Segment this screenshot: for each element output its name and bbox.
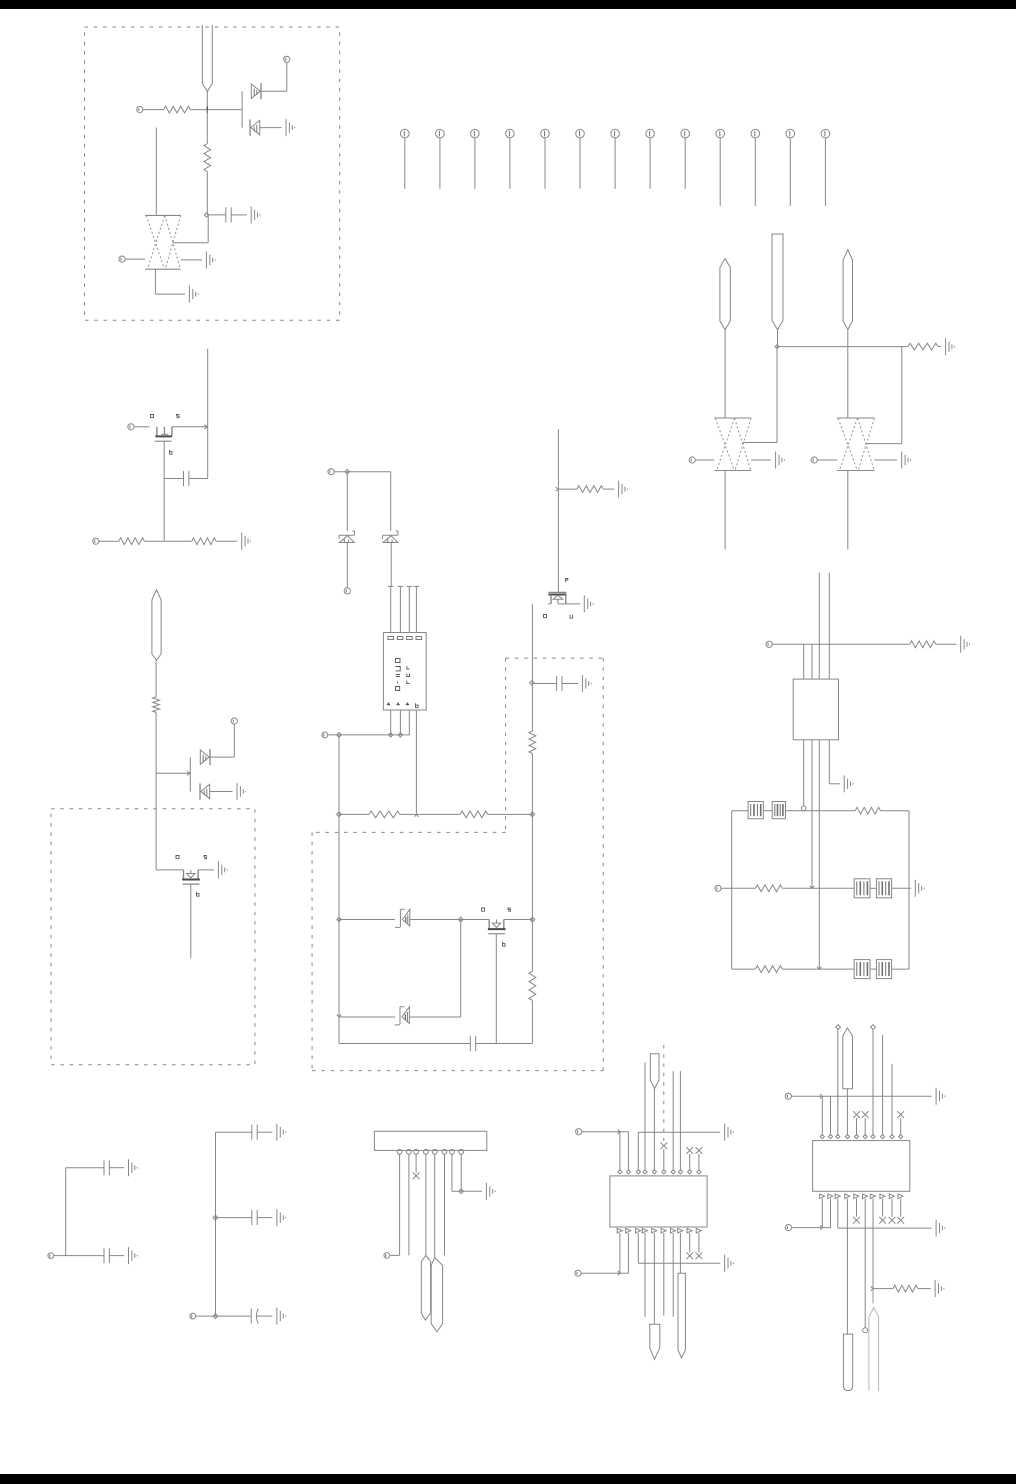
no-connect X: [660, 1142, 667, 1149]
U5 pin 15 mark: [854, 1194, 859, 1199]
resistor R2: [204, 144, 211, 172]
no-connect X: [686, 1252, 693, 1259]
wire: [164, 478, 183, 480]
U5 pin12 wire: [830, 1199, 832, 1228]
label G: [503, 942, 506, 946]
wire: [338, 735, 340, 815]
wire: [534, 683, 557, 685]
wire: [257, 1315, 273, 1317]
wire: [216, 1131, 252, 1133]
wire: [698, 1154, 700, 1171]
wire: [772, 643, 909, 645]
test-point pill TP12: [843, 1334, 852, 1391]
junction arrow: [820, 1094, 822, 1098]
pin P6: [128, 424, 134, 430]
U5 pin13 wire: [837, 1199, 839, 1229]
ground: [237, 783, 246, 800]
wire: [847, 330, 849, 418]
dashed enclosure (central, left/bottom): [312, 658, 603, 1071]
resistor R12: [855, 807, 880, 814]
wire: [581, 1272, 628, 1274]
test-point pill TP3: [772, 234, 783, 330]
wire: [334, 471, 391, 473]
test-point pill TP1: [202, 25, 212, 92]
U4 pin20 wire: [698, 1233, 700, 1252]
node: [530, 917, 535, 922]
junction arrow: [618, 1130, 620, 1134]
U4 pin 9 node: [688, 1170, 692, 1174]
diode D3: [200, 749, 210, 765]
CN1 pin 8 pad: [459, 1149, 464, 1154]
wire: [721, 887, 755, 889]
wire: [782, 887, 854, 889]
node: [398, 733, 402, 737]
connector pin 2: [436, 129, 445, 189]
node: [213, 1215, 218, 1220]
wire: [241, 110, 243, 128]
wire: [206, 92, 208, 110]
wire: [818, 573, 820, 680]
wire: [231, 214, 247, 216]
ground: [242, 533, 251, 550]
wire: [891, 1064, 893, 1136]
connector CN1 body: [374, 1131, 486, 1150]
capacitor C4: [470, 1036, 475, 1051]
wire: [856, 1118, 858, 1136]
U4 pin 3 node: [636, 1170, 640, 1174]
wire: [339, 1043, 470, 1045]
wire: [390, 472, 392, 531]
wire: [866, 347, 902, 444]
wire (diode bus): [189, 757, 191, 791]
top black bar: [0, 0, 1016, 9]
label S: [570, 615, 573, 618]
ground: [286, 119, 295, 136]
U5 pin 1 node: [820, 1135, 824, 1139]
wire: [803, 740, 805, 807]
wire: [410, 919, 461, 921]
CN1 pin 6 pad: [442, 1149, 447, 1154]
no-connect X: [413, 1172, 420, 1179]
wire: [155, 712, 157, 870]
resistor R14: [755, 966, 782, 973]
wire: [109, 1255, 124, 1257]
wire: [190, 109, 242, 111]
wire: [216, 1217, 252, 1219]
pin P17: [576, 1129, 582, 1135]
pin P4: [689, 457, 695, 463]
node: [337, 733, 342, 738]
wire: [786, 810, 856, 812]
ground: [936, 1220, 945, 1237]
U4 pin 14 mark: [642, 1228, 647, 1233]
ground: [582, 675, 591, 692]
ground: [725, 1124, 734, 1141]
U5 pin 6 node: [863, 1135, 867, 1139]
U4 pin 7 node: [671, 1170, 675, 1174]
wire: [189, 478, 208, 480]
test-point pill TP8: [650, 1054, 659, 1089]
label S: [204, 856, 207, 859]
wire: [562, 683, 578, 685]
U5 pin20 wire: [900, 1199, 902, 1217]
connector pin 9: [681, 129, 690, 189]
CN1 pin8 wire: [460, 1154, 462, 1191]
wire: [328, 734, 410, 736]
node: [337, 812, 342, 817]
CN1 pin 5 pad: [432, 1149, 437, 1154]
wire: [603, 488, 614, 490]
IC U4 body: [610, 1176, 707, 1227]
U4 pin 17 mark: [671, 1228, 676, 1233]
wire: [582, 1131, 629, 1133]
U4 pin 8 node: [678, 1170, 682, 1174]
wire: [743, 347, 778, 443]
wire: [339, 1016, 395, 1018]
wire: [900, 1118, 902, 1136]
wire: [695, 459, 714, 461]
wire: [892, 887, 911, 889]
test-point pill TP10: [678, 1273, 685, 1358]
wire: [902, 346, 941, 348]
resistor R1: [164, 106, 191, 113]
resistor R3: [908, 343, 938, 350]
U4 pin 1 node: [618, 1170, 622, 1174]
connector pin 1: [401, 129, 410, 189]
ground: [776, 452, 785, 469]
wire: [198, 869, 214, 871]
U5 pin 10 node: [899, 1135, 903, 1139]
connector pin 13: [821, 129, 830, 206]
U5 pin 13 mark: [835, 1194, 840, 1199]
U4 pin 13 mark: [636, 1228, 641, 1233]
wire: [777, 330, 779, 347]
wire: [817, 459, 837, 461]
resistor R6: [153, 697, 160, 712]
wire: [558, 488, 577, 490]
wire: [566, 603, 580, 605]
dashed stub: [663, 1045, 665, 1141]
wire: [763, 810, 772, 812]
pin P11: [322, 732, 328, 738]
U4 pin 15 mark: [652, 1228, 657, 1233]
CN1 pin4 wire: [425, 1154, 427, 1255]
ground: [844, 775, 853, 792]
junction arrow: [618, 1271, 620, 1276]
junction: [156, 771, 190, 775]
node: [801, 806, 806, 811]
wire: [830, 1096, 832, 1135]
wire: [821, 1096, 823, 1135]
wire (Q1 gate): [163, 441, 165, 541]
wire: [644, 1062, 646, 1171]
U1 pin 2 wire: [398, 586, 404, 632]
U4 pin18 wire: [679, 1233, 681, 1273]
no-connect X: [897, 1111, 904, 1118]
connector pin 11: [751, 129, 760, 206]
ground: [277, 1209, 286, 1226]
wire: [488, 813, 533, 815]
diode D4: [200, 783, 210, 799]
wire: [210, 791, 233, 793]
wire: [838, 1227, 932, 1229]
wire: [792, 1095, 932, 1097]
ground: [936, 1088, 945, 1105]
pin P12: [766, 641, 772, 647]
wire: [339, 919, 395, 921]
CN1 pin3 wire: [415, 1154, 417, 1173]
label S: [177, 415, 180, 418]
wire: [638, 1262, 720, 1264]
capacitor C2: [184, 471, 189, 486]
U5 pin 16 mark: [863, 1194, 868, 1199]
wire (mesh right): [908, 811, 910, 969]
wire: [782, 968, 854, 970]
wire: [653, 1089, 655, 1171]
wire: [338, 814, 340, 1043]
wire (triac X3 MT2): [847, 471, 849, 550]
wire (Q2 gate): [190, 884, 192, 958]
wire: [216, 540, 237, 542]
wire: [619, 1132, 621, 1171]
wire: [936, 643, 956, 645]
wire: [144, 540, 191, 542]
U4 pin16 wire: [663, 1233, 665, 1316]
U1 refdes marks: [396, 659, 410, 691]
U5 pin16 wire: [864, 1199, 866, 1328]
label D: [544, 615, 547, 618]
ferrite bead FB3: [854, 879, 870, 898]
wire: [99, 540, 119, 542]
wire: [206, 172, 208, 215]
test-point pill TP5: [152, 590, 161, 660]
no-connect X: [686, 1147, 693, 1154]
test-point pill TP4: [843, 250, 852, 330]
ferrite bead FB1: [748, 802, 763, 819]
U5 pin15 wire: [856, 1199, 858, 1217]
connector pin 12: [786, 129, 795, 206]
wire: [346, 472, 348, 531]
wire: [872, 1289, 874, 1304]
U5 pin 5 node: [854, 1135, 858, 1139]
U5 pin18 wire: [882, 1199, 884, 1217]
pin P2: [284, 56, 290, 62]
wire: [672, 1071, 674, 1171]
wire: [181, 259, 202, 261]
connector pin 8: [646, 129, 655, 189]
wire: [196, 1315, 252, 1317]
no-connect X: [879, 1217, 886, 1224]
resistor R13: [755, 885, 782, 892]
resistor R9: [369, 811, 400, 818]
TVS Z1: [339, 531, 355, 543]
opto-diac T2: [395, 1007, 410, 1025]
wire: [109, 1167, 124, 1169]
transistor Q1: [155, 427, 172, 441]
wire: [864, 1118, 866, 1136]
CN1 pin2 wire: [408, 1154, 410, 1255]
wire: [637, 1132, 639, 1171]
wire: [792, 1227, 831, 1229]
wire: [638, 1131, 720, 1133]
pin P18: [575, 1270, 581, 1276]
wire: [846, 1089, 848, 1136]
wire (Q4 gate): [493, 934, 499, 1044]
U5 pin 3 node: [836, 1135, 840, 1139]
U1 pin 3 wire: [407, 586, 413, 632]
ferrite bead FB5: [854, 960, 870, 979]
wire: [837, 1030, 839, 1136]
label G: [197, 892, 200, 896]
U4 pin 20 mark: [696, 1228, 701, 1233]
U4 pin19 wire: [689, 1233, 691, 1252]
wire: [66, 1167, 104, 1169]
U1 top pin labels: [388, 637, 422, 640]
pin P13: [715, 885, 721, 891]
ground: [218, 861, 227, 878]
node: [204, 213, 208, 217]
connector pin 3: [471, 129, 480, 189]
wire: [173, 215, 208, 243]
wire: [531, 754, 533, 815]
wire: [689, 1154, 691, 1171]
pin P10: [344, 588, 350, 594]
node: [213, 1314, 218, 1319]
wire: [476, 1043, 533, 1045]
wire: [828, 573, 830, 680]
wire: [409, 1016, 460, 1018]
diode D2: [250, 119, 260, 135]
wire: [257, 1217, 272, 1219]
ground: [486, 1183, 495, 1200]
wire (triac gate): [155, 128, 157, 216]
ground: [961, 636, 970, 653]
ground: [206, 251, 215, 268]
no-connect X: [853, 1217, 860, 1224]
diode D1: [251, 83, 261, 99]
U4 pin 12 mark: [626, 1228, 631, 1233]
U1 pin 1 wire: [388, 586, 394, 632]
U4 pin 18 mark: [678, 1228, 683, 1233]
junction: [556, 487, 559, 491]
U5 pin 18 mark: [880, 1194, 885, 1199]
U1 pin 6 wire: [399, 710, 401, 735]
U4 pin 2 node: [626, 1170, 630, 1174]
pin P15: [190, 1313, 196, 1319]
wire (triac X2 MT2): [724, 471, 726, 550]
triac X1: [145, 215, 181, 269]
U5 pin 2 node: [828, 1135, 832, 1139]
label S: [508, 908, 511, 911]
pin P16: [384, 1253, 390, 1259]
wire: [143, 109, 164, 111]
ferrite bead FB4: [876, 879, 891, 898]
U5 pin 9 node: [890, 1135, 894, 1139]
U5 pin17 wire: [872, 1199, 874, 1289]
transistor Q4: [488, 920, 506, 934]
pin P1: [137, 107, 143, 113]
wire: [811, 740, 813, 889]
wire: [400, 813, 460, 815]
junction arrow: [817, 967, 821, 969]
wire: [732, 810, 748, 812]
pin P7: [93, 538, 99, 544]
U5 pin 11 mark: [820, 1194, 825, 1199]
probe outline TP13: [869, 1308, 879, 1392]
U4 pin17 wire: [672, 1233, 674, 1317]
junction arrow: [414, 814, 418, 816]
test-point pill TP2: [720, 259, 730, 330]
wire: [339, 813, 369, 815]
IC U5 body: [813, 1141, 910, 1192]
U4 pin14 wire: [644, 1233, 646, 1317]
wire: [65, 1168, 67, 1256]
TVS Z2: [383, 531, 399, 543]
wire: [870, 887, 876, 889]
U4 pin 5 node: [652, 1170, 656, 1174]
capacitor C5: [104, 1160, 109, 1175]
wire: [531, 920, 533, 972]
U1 pin 5 wire: [390, 710, 392, 735]
wire: [663, 1149, 665, 1171]
test-point pill TP6: [421, 1255, 430, 1320]
wire: [818, 740, 820, 969]
U5 pin 8 node: [881, 1135, 885, 1139]
node: [345, 469, 350, 474]
wire: [390, 543, 392, 587]
test-point pill TP7: [431, 1257, 442, 1331]
transistor Q2: [182, 870, 200, 884]
U4 pin 10 node: [697, 1170, 701, 1174]
opto-diac T1: [395, 909, 410, 927]
U5 pin19 wire: [891, 1199, 893, 1217]
node: [775, 345, 779, 349]
ferrite bead FB2: [772, 802, 785, 819]
ground: [902, 452, 911, 469]
U1 pin 8 wire: [415, 710, 417, 814]
wire: [874, 459, 897, 461]
wire: [751, 459, 771, 461]
wire: [531, 814, 533, 919]
U5 pin 17 mark: [870, 1194, 875, 1199]
resistor R11: [910, 641, 936, 648]
dashed enclosure box (left): [51, 809, 255, 1065]
wire: [172, 426, 208, 428]
pin P14: [48, 1253, 54, 1259]
triac X2: [714, 418, 751, 471]
ground: [129, 1159, 138, 1176]
pin P8: [231, 718, 237, 724]
wire: [882, 1035, 884, 1136]
CN1 pin 1 pad: [397, 1149, 402, 1154]
U5 pin 7 node: [871, 1135, 875, 1139]
junction arrow: [810, 886, 814, 888]
wire: [918, 1288, 931, 1290]
node: [836, 1025, 841, 1030]
ferrite bead FB6: [876, 960, 891, 979]
wire: [261, 63, 287, 92]
connector pin 5: [541, 129, 550, 189]
CN1 pin 2 pad: [407, 1149, 412, 1154]
CN1 pin5 wire: [434, 1154, 436, 1257]
capacitor C3: [557, 676, 562, 691]
triac X3: [837, 418, 874, 471]
wire: [257, 1131, 272, 1133]
wire: [870, 968, 876, 970]
pin P9: [328, 469, 334, 475]
wire: [873, 1288, 893, 1290]
wire: [531, 604, 533, 731]
